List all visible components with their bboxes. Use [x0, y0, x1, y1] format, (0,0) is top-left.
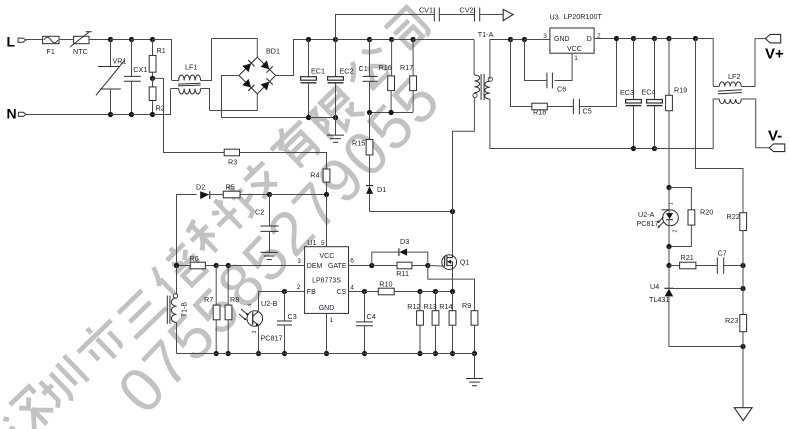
wire sense R13-R14: [436, 291, 453, 293]
svg-text:VCC: VCC: [567, 46, 582, 53]
resistor R23: [725, 315, 747, 347]
resistor R4: [310, 169, 330, 195]
wire snubber node rail: [370, 112, 414, 114]
IC U1 LP8773S box: [305, 238, 349, 324]
resistor R14: [439, 292, 456, 354]
wire R20 top: [669, 188, 691, 210]
capacitor CV1: [419, 6, 439, 22]
wire R10 to R12: [394, 291, 420, 293]
wire opto to R21 node: [668, 247, 670, 266]
svg-text:EC3: EC3: [620, 88, 634, 97]
svg-text:R11: R11: [396, 269, 409, 278]
wire TL431 cathode node: [668, 266, 670, 289]
svg-text:U4: U4: [650, 282, 659, 291]
svg-text:EC1: EC1: [311, 67, 325, 76]
node snubber C1: [367, 110, 372, 115]
ground C2 earth: [261, 252, 278, 259]
svg-text:D2: D2: [196, 183, 205, 192]
wire to LF1 top: [153, 40, 172, 81]
svg-text:U1: U1: [307, 238, 316, 247]
wire DC bus EC1-EC2: [309, 39, 336, 41]
wire T1B top to D2: [177, 195, 197, 266]
svg-text:GND: GND: [319, 305, 335, 312]
wire BD1 plus to bus: [276, 40, 309, 76]
node snubber R16: [389, 110, 394, 115]
node sense R13: [433, 289, 438, 294]
wire C6 to GND net: [525, 40, 547, 81]
svg-text:R10: R10: [379, 280, 392, 289]
wire R21 to C7: [696, 265, 717, 267]
wire Q1 drain: [452, 212, 454, 256]
choke LF1 bottom winding: [171, 89, 210, 111]
svg-text:2: 2: [673, 230, 679, 233]
wire R6 to R7 node: [205, 265, 216, 267]
node gnd divider: [740, 344, 745, 349]
resistor R16: [379, 40, 395, 113]
bridge rectifier BD1 diamond: [239, 47, 280, 94]
node bus C1: [367, 37, 372, 42]
wire VCC to U1 pin5: [326, 195, 328, 247]
resistor R5: [223, 183, 240, 198]
svg-text:VR1: VR1: [113, 57, 127, 66]
svg-text:R12: R12: [407, 302, 420, 311]
wire plus rail to LF2: [696, 39, 714, 87]
node gnd U2B: [256, 351, 261, 356]
capacitor C4: [356, 292, 376, 354]
node plus EC3: [631, 36, 636, 41]
svg-text:C5: C5: [583, 107, 592, 116]
svg-text:VCC: VCC: [320, 253, 335, 260]
resistor R6: [190, 254, 206, 269]
svg-text:3: 3: [297, 258, 301, 265]
wire N rail to LF1 bottom: [153, 89, 171, 115]
wire C5 up to D net: [579, 39, 616, 107]
node T1B top: [174, 263, 179, 268]
wire R3 to R4: [240, 153, 327, 170]
resistor R1: [149, 40, 166, 79]
resistor R17: [400, 40, 417, 113]
node minus rail EC2: [333, 115, 338, 120]
svg-text:C2: C2: [255, 208, 264, 217]
node bus EC1: [306, 37, 311, 42]
wire gnd node down: [742, 347, 744, 408]
svg-text:BD1: BD1: [266, 47, 280, 56]
resistor R11: [372, 262, 428, 278]
node VCC R4: [324, 192, 329, 197]
svg-text:R16: R16: [379, 63, 392, 72]
node C2: [267, 192, 272, 197]
svg-text:1: 1: [574, 55, 578, 62]
svg-text:GATE: GATE: [328, 263, 347, 270]
wire R22 to ref: [742, 266, 744, 289]
svg-text:R22: R22: [727, 212, 740, 221]
node gate branch: [369, 263, 374, 268]
wire CS to R10: [365, 291, 379, 293]
bridge diode BD1-d (bottom-right): [261, 78, 273, 90]
svg-text:4: 4: [248, 304, 254, 307]
node plus feedback tap: [693, 36, 698, 41]
svg-text:PC817: PC817: [261, 334, 283, 343]
node gnd EC3: [631, 146, 636, 151]
node N-CX1: [129, 112, 134, 117]
svg-text:EC2: EC2: [340, 67, 354, 76]
choke LF2 core: [718, 90, 742, 94]
node CS C4: [362, 289, 367, 294]
svg-text:3: 3: [252, 331, 258, 334]
transformer T1-B core: [167, 296, 170, 324]
node L-R1: [150, 37, 155, 42]
wire DC bus EC2-C1: [336, 39, 370, 41]
capacitor CX1: [124, 40, 147, 115]
wire output gnd rail 2: [634, 148, 655, 150]
resistor R9 gate bleed: [428, 266, 478, 354]
svg-text:R8: R8: [230, 295, 239, 304]
wire to U3 GND pin 3: [525, 33, 550, 40]
wire plus rail 3: [655, 38, 670, 40]
svg-text:LP20R100T: LP20R100T: [564, 12, 603, 21]
svg-text:R1: R1: [157, 46, 166, 55]
node sense R14: [450, 289, 455, 294]
svg-text:D1: D1: [377, 185, 386, 194]
resistor R13: [424, 292, 439, 354]
transformer T1-B winding: [171, 266, 188, 354]
shunt regulator U4 TL431: [649, 282, 673, 304]
node bus EC2: [333, 37, 338, 42]
svg-text:DEM: DEM: [307, 263, 323, 270]
resistor R3: [224, 149, 239, 166]
node plus C5: [614, 36, 619, 41]
wire TL431 anode: [669, 296, 743, 346]
node gnd R9: [472, 351, 477, 356]
svg-text:1: 1: [669, 202, 675, 205]
wire FB to U1 pin2: [285, 284, 305, 292]
svg-text:NTC: NTC: [73, 47, 88, 56]
svg-text:C3: C3: [288, 312, 297, 321]
wire DC bus R16-R17: [392, 39, 414, 41]
transformer T1-A primary lead: [473, 40, 475, 76]
wire TL431 ref to divider: [669, 288, 743, 290]
choke LF1 core: [178, 83, 201, 86]
wire secondary bottom to output gnd rail: [490, 99, 634, 149]
svg-text:D3: D3: [400, 237, 409, 246]
wire primary gnd rail: [177, 353, 475, 355]
wire minus rail EC1-EC2: [309, 117, 336, 119]
varistor VR1: [96, 40, 126, 115]
wire U2B collector to FB: [259, 292, 285, 312]
port N terminal: [7, 106, 26, 122]
svg-text:R17: R17: [400, 63, 413, 72]
svg-text:CV1: CV1: [419, 6, 433, 15]
wire feedback drop: [696, 39, 744, 213]
svg-text:6: 6: [350, 258, 354, 265]
wire D1 to drain node: [370, 211, 453, 213]
node R1-R2 divider: [150, 76, 155, 81]
svg-text:FB: FB: [307, 289, 316, 296]
wire Q1 source: [452, 269, 454, 291]
wire N rail 2: [111, 114, 132, 116]
svg-text:L: L: [7, 34, 16, 50]
node divider C7: [740, 263, 745, 268]
svg-text:R18: R18: [533, 108, 546, 117]
diode D3 bypass: [372, 237, 428, 266]
capacitor C7: [717, 249, 726, 274]
capacitor EC1: [301, 40, 325, 118]
resistor R8: [225, 266, 239, 354]
svg-text:5: 5: [321, 240, 325, 247]
wire gate to Q1: [428, 265, 445, 268]
capacitor C1: [359, 40, 378, 113]
capacitor C2: [255, 195, 279, 253]
svg-text:R19: R19: [674, 86, 687, 95]
wire N rail 3: [132, 114, 153, 116]
svg-text:CX1: CX1: [133, 65, 147, 74]
node gnd C4: [362, 351, 367, 356]
capacitor C5: [573, 99, 591, 116]
node divider ref: [740, 286, 745, 291]
ground primary minus: [327, 118, 344, 143]
resistor R2: [149, 78, 165, 114]
wire CV1 to CV2: [439, 14, 474, 16]
svg-text:R15: R15: [352, 139, 365, 148]
port V- terminal: [768, 128, 785, 152]
wire to R1 node: [132, 39, 153, 41]
svg-text:R21: R21: [681, 253, 694, 262]
wire NTC to VR1 node: [89, 39, 111, 41]
node plus EC4: [652, 36, 657, 41]
node plus R19: [666, 36, 671, 41]
svg-text:C6: C6: [557, 85, 566, 94]
node drain clamp: [450, 209, 455, 214]
node opto cathode: [666, 244, 671, 249]
svg-text:1: 1: [330, 317, 334, 324]
svg-text:T1-B: T1-B: [181, 302, 188, 318]
node snubber left: [508, 37, 513, 42]
svg-text:U2-A: U2-A: [638, 210, 655, 219]
choke LF2 bottom winding: [713, 99, 769, 149]
resistor R19: [666, 39, 688, 188]
svg-text:3: 3: [543, 33, 547, 40]
wire BD1 minus to rail: [222, 76, 309, 118]
wire DEM R7-R8: [216, 265, 228, 267]
resistor R18: [532, 103, 548, 116]
capacitor EC2: [328, 40, 354, 118]
resistor R21: [669, 253, 696, 269]
wire C7 to divider: [724, 265, 743, 267]
node gnd R14: [450, 351, 455, 356]
wire BD1 AC bottom: [210, 94, 258, 111]
wire VCC feed: [270, 194, 327, 196]
node gnd EC4: [652, 146, 657, 151]
svg-text:C4: C4: [367, 312, 376, 321]
svg-text:U2-B: U2-B: [261, 299, 278, 308]
wire to C6 node: [511, 39, 525, 41]
capacitor EC3: [620, 39, 641, 149]
svg-text:2: 2: [297, 284, 301, 291]
svg-text:R5: R5: [226, 183, 235, 192]
node bus R16: [389, 37, 394, 42]
bridge diode BD1-a (left-top): [242, 60, 254, 72]
node C6 feed: [522, 37, 527, 42]
transformer T1-A core: [481, 74, 484, 100]
svg-text:R13: R13: [424, 302, 437, 311]
capacitor EC4: [642, 39, 663, 149]
svg-text:T1-A: T1-A: [478, 30, 494, 39]
wire CS pin: [349, 285, 365, 292]
U3 VCC pin 1 wire: [555, 53, 579, 80]
wire to CX1 node: [111, 39, 132, 41]
wire U2B emitter: [258, 326, 260, 354]
wire primary to Q1 drain: [453, 98, 475, 212]
resistor R20: [688, 208, 713, 226]
node DEM R7: [214, 263, 219, 268]
resistor R12: [407, 292, 423, 354]
wire DEM rail left: [177, 265, 191, 267]
transformer T1-A secondary winding: [485, 77, 493, 99]
node L-CX1: [129, 37, 134, 42]
wire F1 to NTC: [59, 39, 74, 41]
node R21 left: [666, 263, 671, 268]
wire plus rail 4: [669, 38, 696, 40]
svg-text:LF2: LF2: [728, 72, 740, 81]
wire L to F1: [26, 39, 43, 41]
bridge diode BD1-b (top-right): [261, 61, 273, 73]
svg-text:R20: R20: [700, 208, 713, 217]
choke LF2 top winding: [713, 39, 765, 87]
watermark company text and phone (decorative): [0, 7, 454, 429]
wire R20 bottom: [669, 225, 691, 246]
svg-text:C1: C1: [359, 64, 368, 73]
svg-text:R3: R3: [228, 158, 237, 167]
diode D1: [366, 185, 386, 212]
resistor R22: [727, 212, 747, 266]
svg-text:C7: C7: [718, 249, 727, 258]
svg-text:R7: R7: [204, 295, 213, 304]
svg-text:CS: CS: [336, 289, 346, 296]
svg-text:F1: F1: [47, 47, 55, 56]
resistor R15: [352, 113, 373, 186]
svg-text:D: D: [587, 36, 592, 43]
capacitor C3: [277, 292, 297, 354]
wire R5 to C2 node: [240, 194, 270, 196]
wire secondary top to U3: [490, 40, 511, 80]
svg-text:LP8773S: LP8773S: [312, 278, 341, 285]
optocoupler U2-B transistor: [239, 299, 282, 343]
node gnd C3: [282, 351, 287, 356]
port L terminal: [7, 34, 26, 50]
fuse F1: [43, 36, 59, 56]
wire GATE pin: [349, 258, 372, 266]
capacitor C6: [547, 73, 566, 94]
svg-text:LF1: LF1: [185, 63, 197, 72]
wire DEM to U1 pin3: [228, 258, 304, 266]
wire bus to CV rail: [336, 15, 435, 40]
wire LF1 to BD1 AC top: [212, 39, 258, 58]
transformer T1-A primary winding: [473, 75, 480, 98]
bridge diode BD1-c (left-bottom): [242, 79, 254, 91]
svg-text:R4: R4: [310, 171, 319, 180]
wire output gnd rail 3: [655, 148, 714, 150]
svg-text:R14: R14: [439, 302, 452, 311]
transformer T1-A label: [478, 30, 494, 39]
wire DC bus C1-R16: [370, 39, 392, 41]
svg-text:N: N: [7, 106, 17, 122]
node gate R11: [425, 263, 430, 268]
node gnd R8: [226, 351, 231, 356]
node minus rail EC1: [306, 115, 311, 120]
resistor R10: [378, 280, 394, 295]
ground output triangle: [734, 408, 752, 421]
node DEM R8: [226, 263, 231, 268]
svg-text:R23: R23: [725, 316, 738, 325]
node sense R12: [417, 289, 422, 294]
node gnd R7: [214, 351, 219, 356]
node FB C3: [282, 289, 287, 294]
wire R18 to C5: [547, 106, 573, 108]
capacitor CV2: [460, 6, 480, 22]
wire R1R2 tap to R3: [153, 78, 225, 152]
optocoupler U2-A LED: [637, 188, 679, 247]
svg-text:PC817: PC817: [637, 219, 659, 228]
node N-VR1: [108, 112, 113, 117]
earth arrow symbol: [503, 9, 513, 20]
node L-VR1: [108, 37, 113, 42]
thermistor NTC: [70, 32, 92, 56]
wire plus rail 2: [634, 38, 655, 40]
svg-text:EC4: EC4: [642, 88, 656, 97]
resistor R7: [204, 266, 220, 354]
diode D2: [196, 183, 223, 200]
wire N rail: [26, 114, 111, 116]
svg-text:GND: GND: [554, 36, 570, 43]
svg-text:CV2: CV2: [460, 6, 474, 15]
node gnd R13: [433, 351, 438, 356]
node opto feed: [666, 185, 671, 190]
svg-text:V-: V-: [768, 128, 782, 145]
node N-R2: [150, 112, 155, 117]
svg-text:V+: V+: [765, 46, 784, 63]
node bus R17: [411, 37, 416, 42]
wire plus rail 1: [617, 38, 634, 40]
svg-text:4: 4: [350, 285, 354, 292]
svg-text:R9: R9: [462, 301, 471, 310]
wire sense R12-R13: [420, 291, 436, 293]
snubber R18 wire down: [511, 40, 532, 107]
port V+ terminal: [765, 34, 784, 62]
node gnd U1: [324, 351, 329, 356]
svg-text:Q1: Q1: [460, 258, 470, 267]
svg-text:TL431: TL431: [649, 295, 669, 304]
ground primary symbol: [466, 354, 483, 386]
wire U3 D to plus rail: [594, 38, 616, 40]
wire ref to R23: [742, 289, 744, 315]
U1 GND pin wire: [326, 313, 328, 353]
choke LF1 top winding: [172, 39, 212, 81]
node gnd R12: [417, 351, 422, 356]
wire CV2 to earth arrow: [480, 14, 504, 16]
transistor Q1 MOSFET: [442, 255, 470, 270]
svg-text:U3: U3: [550, 13, 559, 22]
wire DC bus to T1-A primary: [413, 39, 474, 41]
IC U3 LP20R100T box: [550, 12, 603, 53]
svg-text:R6: R6: [190, 254, 199, 263]
